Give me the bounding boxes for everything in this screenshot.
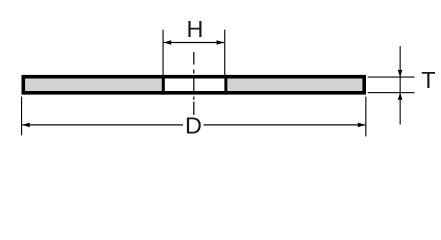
svg-text:T: T	[421, 67, 435, 93]
disc body (cross-section bar)	[23, 77, 364, 93]
D extension line left	[21, 97, 22, 136]
D arrow left	[22, 123, 30, 128]
hub (white center section)	[165, 79, 225, 92]
centerline dash 4	[193, 102, 194, 115]
centerline dash 2	[193, 70, 194, 74]
H extension line left	[163, 30, 164, 75]
centerline dash 3	[193, 97, 194, 100]
T arrow top (points down)	[398, 70, 403, 77]
D extension line right	[365, 97, 366, 137]
centerline dash 1	[193, 52, 194, 65]
D arrow right	[358, 123, 366, 128]
H arrow right	[217, 40, 225, 45]
hub left divider	[162, 75, 165, 95]
D dimension line left segment	[22, 124, 183, 125]
svg-text:H: H	[186, 16, 203, 42]
centerline through hub	[193, 79, 194, 92]
hub right divider	[224, 75, 227, 95]
H dimension line	[164, 42, 225, 43]
T arrow bottom (points up)	[398, 93, 403, 100]
H arrow left	[164, 40, 172, 45]
T extension line bottom	[368, 92, 415, 93]
svg-text:D: D	[185, 112, 202, 138]
T extension line top	[368, 77, 415, 78]
T dimension line	[400, 46, 401, 125]
D dimension line right segment	[204, 124, 366, 125]
H extension line right	[224, 30, 225, 75]
